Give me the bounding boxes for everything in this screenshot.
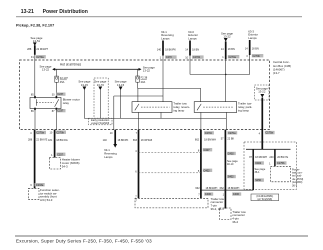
wire: exterior lamps coil feed line bbox=[190, 73, 250, 75]
svg-text:288: 288 bbox=[27, 48, 32, 51]
svg-text:18 BN/WH: 18 BN/WH bbox=[204, 139, 216, 142]
wire T3 inside CJB down to coil feed line bbox=[189, 56, 191, 75]
svg-text:22 RN/WT: 22 RN/WT bbox=[36, 48, 48, 51]
svg-text:C175b: C175b bbox=[277, 162, 285, 165]
svg-text:40-10: 40-10 bbox=[227, 163, 234, 166]
svg-text:20 BN/YE: 20 BN/YE bbox=[277, 156, 288, 159]
svg-text:13-22: 13-22 bbox=[143, 69, 151, 73]
wire: right feed down to splice bus bbox=[259, 98, 275, 150]
svg-text:22 BN/YE: 22 BN/YE bbox=[36, 138, 47, 141]
connector C407 tie bbox=[139, 148, 213, 153]
wire: box1 contact output to CJB edge bbox=[138, 112, 140, 129]
svg-text:45A: 45A bbox=[60, 80, 65, 84]
svg-text:C233a: C233a bbox=[36, 184, 44, 187]
svg-text:Pickup, F2.38, F2.107: Pickup, F2.38, F2.107 bbox=[16, 24, 54, 28]
wire: relay pin 86 down to CJB edge bbox=[34, 109, 36, 130]
svg-text:18 BN: 18 BN bbox=[252, 47, 259, 50]
wire down to box1 contact bbox=[137, 88, 139, 101]
connector C402 tie bbox=[139, 169, 213, 174]
svg-text:140: 140 bbox=[103, 139, 108, 142]
node: see page 13-22 boxed feed (right) bbox=[255, 85, 270, 100]
trailer tow connector 7-pin bbox=[135, 197, 225, 211]
svg-text:C175a: C175a bbox=[266, 132, 274, 135]
node T4: feed from page 13-22 bbox=[221, 31, 239, 59]
svg-text:C237: C237 bbox=[57, 93, 64, 96]
heater blower motor bbox=[49, 158, 80, 170]
svg-text:13-22: 13-22 bbox=[258, 90, 266, 94]
wire: relay pin 87 down to CJB edge bbox=[55, 109, 57, 130]
bus wire hot at all times bbox=[53, 68, 141, 70]
wire: box2 coil bottom through rail to CJB edge bbox=[225, 112, 227, 129]
svg-text:288: 288 bbox=[28, 138, 33, 141]
svg-text:Lamps: Lamps bbox=[248, 36, 257, 40]
bus right arrow to page 13-22 bbox=[139, 68, 142, 71]
wire: right branch to PCM bbox=[269, 149, 288, 166]
wire: reversing lamp coil tee bbox=[114, 95, 163, 97]
svg-text:22 BK: 22 BK bbox=[227, 137, 234, 140]
wire T1 inside CJB to relay pin 85 bbox=[34, 55, 36, 98]
trailer tow relay, parking lamp (box2) bbox=[194, 102, 252, 113]
svg-text:18 BK/PK: 18 BK/PK bbox=[165, 49, 176, 52]
svg-text:18 BN/WH: 18 BN/WH bbox=[228, 187, 240, 190]
svg-text:18 WH/LB: 18 WH/LB bbox=[141, 139, 153, 142]
function selector switch assembly bbox=[28, 188, 59, 202]
svg-text:ing lamp: ing lamp bbox=[173, 108, 184, 112]
wire: relay coil control rail bbox=[84, 117, 226, 119]
node T2: 63-1 Reversing Lamps bbox=[157, 30, 177, 60]
svg-text:C270a: C270a bbox=[228, 132, 236, 135]
svg-text:13-15: 13-15 bbox=[117, 83, 125, 87]
TorqShift variant dashed box bbox=[244, 142, 297, 189]
wire L: trailer feed to 7-pin connector bbox=[133, 130, 153, 199]
svg-text:140: 140 bbox=[157, 49, 162, 52]
svg-text:C270a: C270a bbox=[37, 132, 45, 135]
svg-text:F2.38: F2.38 bbox=[141, 76, 148, 80]
svg-text:18 BN: 18 BN bbox=[228, 48, 235, 51]
svg-text:Lamps: Lamps bbox=[161, 36, 170, 40]
svg-text:663: 663 bbox=[133, 139, 138, 142]
junction T4 and coil feed line bbox=[225, 74, 227, 76]
blower motor relay box bbox=[30, 93, 80, 114]
wire R: parking lamp feed to 7-pin connector bbox=[195, 130, 216, 199]
node T3: 63-0 Exterior Lamps bbox=[185, 30, 203, 60]
wire T4 inside CJB to relay coil bbox=[225, 59, 227, 102]
svg-text:13-22: 13-22 bbox=[42, 68, 50, 72]
svg-text:C402: C402 bbox=[255, 162, 262, 165]
wire T2 inside CJB to box1 coil bbox=[162, 56, 164, 102]
svg-text:C402: C402 bbox=[228, 153, 235, 156]
svg-text:C270a: C270a bbox=[36, 56, 44, 59]
svg-text:C270b: C270b bbox=[193, 56, 201, 59]
node T1: feed from page 13-51 bbox=[27, 36, 48, 59]
svg-text:Excursion, Super Duty Series F: Excursion, Super Duty Series F-250, F-35… bbox=[16, 239, 152, 244]
svg-text:S150: S150 bbox=[255, 179, 261, 182]
svg-text:C237: C237 bbox=[57, 110, 64, 113]
wire: left branch to splice S150 bbox=[249, 149, 267, 190]
node T5: 63-3 Exterior Lamps bbox=[245, 30, 263, 59]
svg-text:36-2: 36-2 bbox=[232, 220, 238, 224]
note: w/ TorqShift bbox=[251, 194, 279, 201]
svg-text:C407: C407 bbox=[204, 149, 211, 152]
fuse F2.107 45A bbox=[55, 69, 69, 97]
svg-text:54-3: 54-3 bbox=[62, 164, 68, 168]
wire: 662 splice branch line bbox=[195, 187, 253, 190]
wire 2: 22 BK feed to 4-pin connector bbox=[221, 130, 241, 209]
wire: fused rail to relay contacts bbox=[138, 87, 201, 89]
header rule bbox=[16, 16, 302, 18]
svg-text:13-22: 13-22 bbox=[223, 35, 231, 39]
node: see page 13-70 (middle, early production) bbox=[94, 78, 108, 118]
wire B to heater blower motor bbox=[48, 130, 68, 158]
svg-text:C270: C270 bbox=[166, 56, 173, 59]
svg-text:13-15: 13-15 bbox=[81, 83, 89, 87]
svg-text:except TorqShift: except TorqShift bbox=[91, 122, 109, 125]
note: early production except TorqShift bbox=[89, 118, 113, 125]
svg-text:relay: relay bbox=[63, 101, 70, 105]
svg-text:C406: C406 bbox=[233, 193, 240, 196]
wire: box1 coil bottom to rail bbox=[160, 112, 162, 118]
svg-text:662: 662 bbox=[195, 187, 200, 190]
svg-text:20A: 20A bbox=[141, 80, 146, 84]
svg-text:C402: C402 bbox=[204, 169, 211, 172]
wire T5 inside CJB elbow to coil feed line bbox=[249, 55, 251, 74]
svg-text:18 BN/WH: 18 BN/WH bbox=[206, 187, 218, 190]
svg-text:C270a: C270a bbox=[229, 56, 237, 59]
svg-text:662: 662 bbox=[220, 187, 225, 190]
svg-text:18 BK/PK: 18 BK/PK bbox=[118, 139, 129, 142]
fuse F2.38 20A bbox=[136, 69, 148, 88]
svg-text:36-1: 36-1 bbox=[255, 171, 261, 174]
svg-text:13-21: 13-21 bbox=[21, 9, 34, 15]
svg-text:18 BN: 18 BN bbox=[192, 49, 199, 52]
svg-text:ing lamp: ing lamp bbox=[238, 108, 249, 112]
wire: box2 contact output to CJB edge bbox=[200, 112, 202, 129]
bus left arrow to page 13-22 bbox=[52, 68, 55, 71]
node: see page 13-15 (left) bbox=[78, 80, 90, 119]
wire: 63-1 reversing lamps exit arrow bbox=[103, 130, 129, 159]
svg-text:240: 240 bbox=[269, 156, 274, 159]
svg-text:Hot at all times: Hot at all times bbox=[60, 63, 81, 67]
svg-text:C270c: C270c bbox=[205, 132, 213, 135]
Central Junction Box (CJB) dashed outline bbox=[20, 60, 270, 130]
svg-text:S402: S402 bbox=[228, 176, 234, 179]
svg-text:18 BN/OG: 18 BN/OG bbox=[56, 139, 68, 142]
powertrain control module (PCM) bbox=[270, 166, 303, 187]
wire: splice bus bbox=[246, 148, 291, 150]
svg-text:(13-7: (13-7 bbox=[273, 71, 280, 75]
svg-text:C270b: C270b bbox=[57, 131, 65, 134]
svg-text:13-70: 13-70 bbox=[97, 83, 105, 87]
svg-text:181: 181 bbox=[48, 139, 53, 142]
trailer tow connector 4-pin bbox=[220, 208, 247, 224]
wire A to function selector switch bbox=[28, 130, 48, 189]
svg-text:36-7: 36-7 bbox=[292, 184, 298, 187]
svg-text:F2.107: F2.107 bbox=[60, 76, 69, 80]
svg-text:A/C) 54-3: A/C) 54-3 bbox=[40, 198, 53, 202]
svg-text:C406: C406 bbox=[205, 193, 212, 196]
svg-text:36-2, 36-3: 36-2, 36-3 bbox=[211, 207, 225, 211]
svg-text:C157: C157 bbox=[57, 153, 64, 156]
svg-text:662: 662 bbox=[195, 139, 200, 142]
svg-text:18 RD/WH: 18 RD/WH bbox=[255, 156, 267, 159]
svg-text:Power Distribution: Power Distribution bbox=[43, 9, 88, 15]
wire: junction riser / reversing lamps output bbox=[113, 96, 115, 130]
svg-text:(w/ TorqShift): (w/ TorqShift) bbox=[257, 198, 272, 201]
svg-text:Lamps: Lamps bbox=[104, 155, 113, 159]
footer rule bbox=[15, 235, 308, 237]
svg-text:C270b: C270b bbox=[253, 55, 261, 58]
wire down to box2 contact bbox=[200, 88, 202, 101]
svg-text:Lamps: Lamps bbox=[188, 36, 197, 40]
node: see page 13-15 (right) bbox=[115, 80, 127, 119]
trailer tow relay, reversing lamp (box1) bbox=[132, 102, 190, 113]
